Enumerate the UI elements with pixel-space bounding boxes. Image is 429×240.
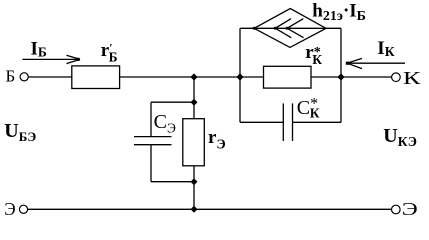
wire current source shaft bbox=[240, 27, 341, 29]
dot at chevron 1 tip bbox=[274, 27, 277, 30]
capacitor C*К left plate bbox=[282, 103, 284, 141]
wire r*К to node E bbox=[311, 76, 341, 78]
wire node A to node D bbox=[194, 76, 240, 78]
wire node B to rЭ top bbox=[193, 102, 195, 119]
wire node A down to node B bbox=[193, 77, 195, 102]
terminal Б (base) circle bbox=[20, 73, 28, 81]
wire down to CЭ top plate bbox=[150, 102, 152, 136]
wire CЭ bottom plate down bbox=[150, 145, 152, 182]
svg-text:Э: Э bbox=[402, 199, 418, 219]
node E junction dot bbox=[337, 73, 344, 80]
svg-text:CЭ: CЭ bbox=[154, 111, 176, 135]
wire node C down to emitter line bbox=[193, 182, 195, 210]
current source arrowhead chevron 1 bbox=[275, 19, 291, 38]
capacitor CЭ top plate bbox=[134, 136, 172, 138]
svg-text:UКЭ: UКЭ bbox=[383, 125, 417, 149]
capacitor C*К right plate bbox=[292, 103, 294, 141]
svg-text:UБЭ: UБЭ bbox=[4, 120, 36, 144]
wire base terminal to r'Б bbox=[29, 76, 72, 78]
wire r'Б to node A bbox=[120, 76, 194, 78]
junction dot at diamond left vertex bbox=[253, 27, 256, 30]
wire C*К right plate to right vertical bbox=[293, 121, 342, 123]
dot at chevron 2 tip bbox=[286, 27, 289, 30]
resistor rЭ bbox=[183, 119, 205, 166]
svg-text:IБ: IБ bbox=[31, 39, 47, 60]
node B junction dot bbox=[191, 99, 198, 106]
terminal Э left (emitter) circle bbox=[19, 205, 27, 213]
node D junction dot bbox=[236, 73, 243, 80]
wire node E down to CК branch bbox=[340, 77, 342, 122]
node C junction dot bbox=[191, 178, 198, 185]
wire node E up to current source level bbox=[340, 28, 342, 77]
capacitor CЭ bottom plate bbox=[134, 144, 172, 146]
svg-text:Б: Б bbox=[6, 66, 16, 85]
svg-text:IК: IК bbox=[377, 38, 394, 59]
wire emitter line bbox=[28, 208, 391, 210]
wire node D to r*К bbox=[240, 76, 264, 78]
current arrow IБ bbox=[22, 55, 80, 63]
svg-text:К: К bbox=[403, 68, 422, 88]
svg-text:h21э·IБ: h21э·IБ bbox=[312, 1, 366, 24]
wire node E to К terminal bbox=[341, 76, 392, 78]
resistor r*К bbox=[264, 66, 312, 88]
node A junction dot bbox=[190, 73, 197, 80]
wire node D up to current source level bbox=[239, 28, 241, 77]
terminal К (collector) circle bbox=[392, 73, 401, 82]
wire node B left to CЭ bbox=[151, 101, 194, 103]
svg-text:r′Б: r′Б bbox=[101, 40, 118, 64]
terminal Э right circle bbox=[392, 205, 401, 214]
wire to node C bbox=[151, 181, 194, 183]
svg-text:rЭ: rЭ bbox=[208, 127, 226, 151]
current arrow IК bbox=[346, 58, 405, 68]
wire to C*К left plate bbox=[240, 121, 283, 123]
wire node D down to CК branch bbox=[239, 77, 241, 122]
current source arrowhead chevron 2 bbox=[287, 19, 304, 38]
emitter line junction dot bbox=[191, 206, 198, 213]
svg-text:C*К: C*К bbox=[297, 96, 320, 121]
svg-text:r*К: r*К bbox=[305, 42, 322, 67]
current source U1 diamond h21Э·IБ bbox=[254, 9, 326, 48]
wire rЭ bottom to node C bbox=[193, 166, 195, 182]
resistor r'Б bbox=[72, 66, 120, 89]
svg-text:Э: Э bbox=[4, 199, 16, 219]
